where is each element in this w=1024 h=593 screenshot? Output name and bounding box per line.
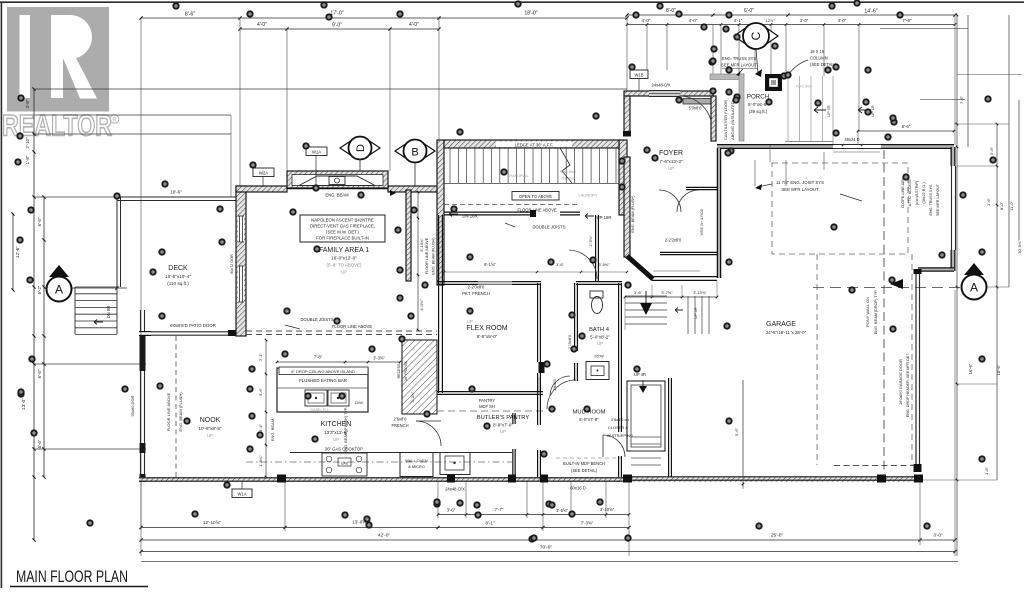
svg-text:8'-0": 8'-0" (666, 8, 676, 14)
svg-text:SEE MFR LAYOUT: SEE MFR LAYOUT (781, 187, 819, 192)
svg-text:DN 5R: DN 5R (106, 306, 111, 319)
dimension chain left outer (21, 87, 36, 541)
eng beam foyer west (631, 195, 635, 233)
stair ledge (444, 140, 619, 148)
dim hall rot (589, 235, 593, 246)
svg-text:5'0x8'0: 5'0x8'0 (689, 106, 702, 111)
svg-text:1'-8⅝": 1'-8⅝" (258, 455, 263, 467)
svg-text:DIRECT-VENT GAS FIREPLACE,: DIRECT-VENT GAS FIREPLACE, (310, 224, 375, 229)
svg-text:5'-10⅝": 5'-10⅝" (419, 238, 424, 252)
svg-text:8'-1": 8'-1" (485, 521, 495, 526)
svg-text:17'-0": 17'-0" (330, 11, 343, 17)
pony wall dashed (883, 150, 885, 476)
floor line above family (246, 317, 437, 335)
svg-text:6'-6": 6'-6" (37, 439, 42, 448)
window tag W1A bottom (232, 482, 252, 498)
svg-text:(36x22 R.O.): (36x22 R.O.) (922, 182, 926, 203)
title main floor plan (10, 568, 148, 587)
bath4 door (547, 380, 576, 409)
svg-text:16'-0"x12'-0": 16'-0"x12'-0" (331, 256, 357, 261)
extension lines top (141, 15, 955, 530)
dimension row bottom 4 (139, 545, 956, 554)
svg-text:7'-7": 7'-7" (495, 507, 504, 512)
dimension row top-right inner (626, 18, 957, 26)
svg-text:10'-6"x8'-8": 10'-6"x8'-8" (198, 426, 222, 431)
svg-text:4'-0": 4'-0" (689, 18, 698, 23)
butlers pantry label (477, 415, 530, 434)
porch label (747, 94, 769, 115)
svg-text:ENG. TRUSS SYS: ENG. TRUSS SYS (722, 56, 757, 61)
svg-text:PKT. FRENCH: PKT. FRENCH (462, 291, 489, 296)
svg-text:7'-3⅝": 7'-3⅝" (581, 521, 594, 526)
column label (786, 49, 837, 78)
svg-text:NAPOLEON ASCENT B42NTRE: NAPOLEON ASCENT B42NTRE (311, 218, 374, 223)
svg-text:UP: UP (207, 433, 213, 438)
svg-text:FLOOR LINE ABOVE: FLOOR LINE ABOVE (332, 324, 372, 329)
svg-text:3'-10⅝": 3'-10⅝" (600, 507, 615, 512)
wall garage west (717, 148, 720, 278)
dimension row top-right (625, 8, 956, 17)
svg-text:FOR FIREPLACE BUILT-IN: FOR FIREPLACE BUILT-IN (316, 236, 369, 241)
svg-text:(5'-8" TO ABOVE): (5'-8" TO ABOVE) (327, 263, 362, 268)
svg-text:NOOK: NOOK (200, 417, 221, 424)
svg-text:6'-0"x7'-8": 6'-0"x7'-8" (579, 417, 599, 422)
foyer closet (659, 187, 720, 254)
svg-text:W.STRIPPING: W.STRIPPING (607, 433, 633, 438)
svg-text:4'-0⅝": 4'-0⅝" (419, 299, 424, 311)
svg-text:7'-6": 7'-6" (902, 18, 912, 24)
svg-text:FLOOR LINE ABOVE: FLOOR LINE ABOVE (166, 392, 171, 431)
wall oven (400, 453, 433, 477)
svg-text:6'-1⅝": 6'-1⅝" (484, 262, 496, 267)
extension lines left (34, 89, 627, 449)
section marker A left (47, 265, 72, 302)
baseline bottom (141, 561, 958, 563)
svg-text:60x16 D: 60x16 D (570, 486, 586, 491)
mud room label (573, 410, 606, 423)
svg-text:1'-8": 1'-8" (25, 155, 30, 164)
wall stairwell west upper (619, 283, 622, 477)
kitchen island (277, 367, 368, 412)
svg-text:DN 16R: DN 16R (462, 214, 477, 219)
svg-text:RAILING: RAILING (796, 84, 812, 89)
section line A-A (72, 286, 961, 289)
svg-text:2'-9⅝": 2'-9⅝" (589, 235, 593, 246)
svg-text:48x24 D: 48x24 D (844, 137, 859, 142)
fireplace (287, 171, 388, 189)
svg-text:6'-6": 6'-6" (37, 369, 42, 378)
svg-text:SEE MFR LAYOUT: SEE MFR LAYOUT (936, 183, 940, 216)
svg-text:D/W: D/W (355, 400, 363, 405)
svg-text:4'-0": 4'-0" (642, 18, 651, 23)
porch steps labels (814, 105, 875, 117)
svg-text:ENG. DROP HEADER, SEE MFR DET.: ENG. DROP HEADER, SEE MFR DET. (906, 353, 910, 418)
bath4 vanity (586, 354, 609, 380)
deck outline (117, 115, 236, 287)
svg-text:BATH 4: BATH 4 (589, 327, 610, 333)
svg-text:(110 sq.ft.): (110 sq.ft.) (167, 281, 189, 286)
svg-text:6'-0": 6'-0" (744, 8, 754, 14)
svg-text:3'-0": 3'-0" (800, 18, 809, 23)
wall kitchen-butlers (513, 413, 515, 477)
svg-text:UP: UP (467, 319, 473, 324)
svg-text:ENG. TRUSS SYS: ENG. TRUSS SYS (929, 184, 933, 215)
svg-text:W2A: W2A (259, 171, 268, 176)
garage door header dashed (817, 254, 914, 466)
mud room door (603, 417, 633, 457)
svg-text:(c/w W-STRIP): (c/w W-STRIP) (915, 181, 919, 206)
svg-text:C: C (749, 31, 763, 40)
svg-text:70'-0": 70'-0" (540, 545, 553, 551)
svg-text:12'-6": 12'-6" (15, 246, 20, 258)
svg-text:FLOOR LINE ABOVE: FLOOR LINE ABOVE (425, 237, 429, 274)
cantilever label (723, 99, 735, 140)
dim garage interior (734, 380, 744, 487)
svg-text:8'-0": 8'-0" (999, 201, 1004, 210)
window tag W1A top (306, 147, 327, 185)
dimension chain left inner (37, 195, 46, 478)
svg-text:RAILING: RAILING (560, 169, 576, 174)
pocket door label flex (462, 285, 489, 297)
svg-text:W1A: W1A (237, 492, 246, 497)
svg-text:UP: UP (500, 429, 506, 434)
pantry cabinet kitchen (397, 340, 437, 414)
svg-text:10'-6"x10'-4": 10'-6"x10'-4" (165, 274, 191, 279)
svg-text:OPEN TO ABOVE: OPEN TO ABOVE (519, 194, 553, 199)
svg-text:MAIN FLOOR PLAN: MAIN FLOOR PLAN (16, 568, 128, 586)
svg-text:3'-0": 3'-0" (933, 533, 943, 538)
flex room label (466, 319, 507, 339)
svg-text:8'-6": 8'-6" (902, 124, 911, 129)
svg-text:WALL OVEN: WALL OVEN (405, 458, 428, 463)
svg-text:'ATTIC' ACCESS: 'ATTIC' ACCESS (908, 179, 912, 207)
svg-text:ENG. BEAM (DROP) TYP.: ENG. BEAM (DROP) TYP. (874, 290, 878, 335)
svg-text:ENG. BEAM (FLUSH): ENG. BEAM (FLUSH) (178, 392, 183, 432)
svg-text:2'-10": 2'-10" (25, 137, 30, 149)
wall garage jog (918, 268, 954, 271)
callout marker D (340, 137, 380, 187)
misc line foyer (653, 270, 700, 272)
dimension chains right (880, 14, 1022, 556)
svg-text:ENG. BEAM: ENG. BEAM (325, 193, 349, 198)
svg-text:CANTILEVER FLOOR: CANTILEVER FLOOR (723, 100, 728, 140)
svg-text:8'-8"x7'-0": 8'-8"x7'-0" (493, 423, 513, 428)
wall garage east upper (951, 147, 955, 271)
dimension row top-left inner (238, 22, 440, 31)
svg-text:W1B: W1B (634, 73, 643, 78)
wall foyer diagonal (627, 256, 717, 280)
svg-text:7'-6": 7'-6" (959, 95, 964, 104)
svg-text:UP: UP (597, 341, 603, 346)
garage extension stubs (755, 152, 824, 186)
wall flex north (437, 282, 541, 285)
svg-text:7'-8": 7'-8" (314, 355, 323, 360)
bath4 label (589, 327, 610, 346)
deck label (165, 265, 191, 286)
svg-text:ENG. BEAM (FLUSH): ENG. BEAM (FLUSH) (432, 237, 436, 275)
wall stairs west (437, 140, 444, 285)
wall family west (230, 186, 246, 336)
svg-text:24x48 O/X: 24x48 O/X (445, 487, 465, 492)
wall bath west (568, 283, 577, 381)
svg-text:FOYER: FOYER (659, 150, 683, 157)
svg-text:11 7/8" ENG. JOIST SYS: 11 7/8" ENG. JOIST SYS (776, 180, 824, 185)
svg-text:10'-6": 10'-6" (170, 190, 182, 195)
wall garage east lower (914, 269, 922, 472)
svg-text:6'-6": 6'-6" (37, 217, 42, 226)
svg-text:3'-9⅝": 3'-9⅝" (598, 262, 610, 267)
kitchen label (321, 421, 352, 442)
svg-text:(SEE DETAIL): (SEE DETAIL) (571, 468, 598, 473)
svg-text:4'-0": 4'-0" (257, 22, 267, 28)
wall stairwell east (669, 378, 672, 477)
wall foyer north (624, 91, 713, 97)
svg-text:4'-0": 4'-0" (409, 22, 419, 28)
svg-text:PORCH: PORCH (747, 94, 769, 101)
wall foyer east (711, 96, 716, 141)
svg-text:LAUNDRY: LAUNDRY (578, 193, 597, 198)
svg-text:8'-9"x9'-0": 8'-9"x9'-0" (477, 334, 498, 339)
svg-text:& MICRO: & MICRO (408, 464, 425, 469)
svg-text:36" GAS COOKTOP: 36" GAS COOKTOP (325, 447, 363, 452)
attic access labels (901, 177, 940, 216)
dimension row bottom 2 (139, 520, 630, 530)
wall bath north (576, 282, 622, 285)
svg-text:36" FRIDGE: 36" FRIDGE (404, 360, 408, 380)
svg-text:RECESS: RECESS (397, 363, 401, 378)
window tag W1B (630, 70, 671, 91)
svg-text:3'-6": 3'-6" (447, 508, 456, 513)
svg-text:11'-0": 11'-0" (1009, 200, 1014, 210)
joist label garage (755, 180, 862, 201)
svg-text:8'-6": 8'-6" (185, 12, 195, 18)
svg-text:3'-5⅝": 3'-5⅝" (556, 508, 568, 513)
butlers shelf (437, 398, 545, 411)
svg-text:42'-0": 42'-0" (378, 533, 391, 539)
svg-text:8'-0"x6'-6": 8'-0"x6'-6" (748, 102, 768, 107)
foyer entry door (679, 96, 712, 129)
window tag 60x16 (570, 486, 586, 491)
svg-text:A: A (55, 283, 63, 297)
dimension row bottom 1 (437, 507, 631, 516)
patio door (139, 310, 236, 336)
extension lines bottom (141, 290, 955, 556)
svg-text:6" DROP CEILING ABOVE ISLAND: 6" DROP CEILING ABOVE ISLAND (291, 369, 355, 374)
eng truss label (721, 56, 757, 76)
watermark REALTOR logo (2, 7, 119, 143)
svg-text:3'-7⅝": 3'-7⅝" (661, 290, 673, 295)
mudroom bench (556, 458, 622, 473)
svg-text:25'-0": 25'-0" (771, 533, 784, 539)
svg-text:2-2'2x8'0: 2-2'2x8'0 (665, 238, 682, 243)
wall nook west (130, 336, 146, 482)
svg-text:6'0x6'8'D PATIO DOOR: 6'0x6'8'D PATIO DOOR (170, 323, 216, 328)
svg-text:16'-6": 16'-6" (968, 363, 973, 374)
wall family north left (236, 186, 287, 192)
svg-text:COLUMN: COLUMN (810, 56, 828, 61)
svg-text:4'-1": 4'-1" (734, 18, 743, 23)
svg-text:1'-6": 1'-6" (984, 466, 989, 475)
svg-text:WRE SH & ROD: WRE SH & ROD (700, 208, 704, 235)
nook label (198, 417, 222, 438)
svg-text:DECK: DECK (168, 265, 188, 272)
dim garage top (857, 124, 956, 145)
svg-text:3'-6": 3'-6" (258, 387, 263, 396)
svg-text:2-2'0x8'0: 2-2'0x8'0 (468, 285, 485, 290)
dim kitchen island (276, 355, 402, 364)
svg-text:ENG. BEAM: ENG. BEAM (270, 419, 275, 441)
svg-text:90x72 DOR: 90x72 DOR (230, 254, 234, 274)
svg-text:5'-6": 5'-6" (734, 427, 739, 436)
svg-text:DOUBLE JOISTS: DOUBLE JOISTS (300, 317, 333, 322)
svg-text:HANDRAIL: HANDRAIL (509, 174, 528, 178)
porch column (765, 74, 782, 91)
porch wall grey (710, 74, 744, 141)
svg-text:UP: UP (668, 166, 674, 171)
foyer label (659, 150, 683, 171)
toilet bath4 (590, 291, 603, 314)
wall family north right (388, 186, 440, 192)
svg-text:GARB. R.L.: GARB. R.L. (310, 408, 330, 412)
svg-text:6'-2": 6'-2" (37, 285, 42, 294)
basement stairwell (625, 296, 667, 465)
svg-text:ABOVE (INSULATED): ABOVE (INSULATED) (730, 99, 735, 139)
svg-text:(SEE M.W. DET.): (SEE M.W. DET.) (326, 230, 360, 235)
window tag W2A (253, 168, 274, 187)
door butlers east (550, 376, 570, 396)
svg-text:DOUBLE JOISTS: DOUBLE JOISTS (532, 225, 565, 230)
family area label (319, 247, 369, 275)
floor line above nook (166, 336, 183, 477)
wall garage north (717, 145, 954, 149)
svg-text:(39 sq.ft.): (39 sq.ft.) (749, 109, 768, 114)
svg-text:9'-0": 9'-0" (332, 23, 342, 29)
garage entry steps (675, 296, 709, 334)
dimension row bottom 3 (139, 533, 956, 542)
hall closet (443, 215, 628, 281)
svg-text:18'-6": 18'-6" (996, 364, 1001, 375)
svg-text:3'-8": 3'-8" (25, 99, 30, 108)
svg-text:3'-3⅝": 3'-3⅝" (373, 356, 385, 361)
garage label (766, 321, 807, 335)
eng beam kitchen (344, 407, 348, 453)
svg-text:ENG. BEAM (FLUSH): ENG. BEAM (FLUSH) (631, 195, 635, 233)
svg-text:W1A: W1A (312, 150, 321, 155)
svg-text:UP 4R: UP 4R (634, 372, 646, 377)
callout marker C (734, 23, 778, 77)
svg-text:UP 4R: UP 4R (826, 105, 831, 117)
misc porch lines (770, 145, 880, 162)
svg-text:FRENCH: FRENCH (391, 423, 408, 428)
svg-text:UP: UP (341, 270, 347, 275)
svg-text:GARAGE: GARAGE (766, 321, 796, 328)
garage door label (898, 353, 910, 418)
svg-text:FAMILY AREA 1: FAMILY AREA 1 (319, 247, 369, 254)
svg-text:MDF SH: MDF SH (479, 404, 495, 409)
svg-text:4'-0": 4'-0" (838, 18, 847, 23)
french door butlers (391, 417, 441, 447)
wall foyer west (623, 96, 631, 257)
up4r label stairwell (634, 372, 647, 393)
svg-text:13'-0": 13'-0" (21, 398, 26, 410)
wall south (139, 475, 923, 483)
svg-text:FLEX ROOM: FLEX ROOM (466, 325, 507, 332)
deck stairs (75, 287, 117, 335)
svg-text:2'-1": 2'-1" (258, 352, 263, 361)
dimension chain left far (11, 212, 20, 291)
svg-text:UP 4R: UP 4R (693, 307, 698, 319)
stair landing labels (444, 192, 611, 230)
kitchen sink counter (440, 453, 470, 475)
svg-text:5'-3⅝": 5'-3⅝" (411, 391, 415, 402)
svg-text:12⅞": 12⅞" (765, 18, 775, 23)
svg-text:CLOPE-LINE-ABV: CLOPE-LINE-ABV (901, 177, 905, 208)
svg-text:A: A (970, 281, 978, 295)
svg-text:PONY WALL ON: PONY WALL ON (865, 297, 870, 327)
wall stair hall south (444, 210, 580, 217)
garage attic dashed rect (772, 163, 908, 254)
stair treads (444, 148, 619, 184)
callout marker B (395, 140, 435, 187)
svg-text:30'-9⅝": 30'-9⅝" (1017, 240, 1022, 254)
svg-text:5'-0"x8'-2": 5'-0"x8'-2" (590, 335, 610, 340)
dim chain mud garage (624, 280, 719, 330)
svg-text:2'6x8'0: 2'6x8'0 (394, 417, 407, 422)
svg-text:90x60 DOR: 90x60 DOR (130, 395, 135, 416)
svg-text:24x48-0/X: 24x48-0/X (651, 83, 670, 88)
svg-text:B: B (411, 147, 418, 159)
svg-text:3'-10⅝": 3'-10⅝" (693, 290, 707, 295)
porch step edge label (842, 137, 863, 146)
wall flex west (439, 215, 443, 393)
svg-text:7'-6"x13'-3": 7'-6"x13'-3" (659, 159, 683, 164)
svg-text:PANTRY: PANTRY (479, 398, 495, 403)
section marker A right (890, 263, 987, 300)
wall stairs east (619, 140, 627, 215)
wall flex east (538, 283, 541, 393)
svg-text:3'-6": 3'-6" (556, 262, 565, 267)
svg-text:26"W: 26"W (594, 354, 604, 359)
eng beam label family (325, 190, 396, 198)
window tag 24x48 (445, 487, 465, 492)
svg-text:GAS: GAS (341, 462, 349, 466)
svg-text:1'-6": 1'-6" (986, 197, 991, 206)
svg-text:ON 2x4: ON 2x4 (561, 176, 575, 181)
svg-text:3'-6": 3'-6" (989, 146, 994, 155)
svg-text:R: R (112, 118, 117, 124)
svg-text:BUILT-IN MDF BENCH: BUILT-IN MDF BENCH (563, 461, 605, 466)
kitchen cooktop (246, 447, 512, 477)
svg-text:3'-6": 3'-6" (634, 290, 643, 295)
svg-text:18'-0": 18'-0" (524, 11, 537, 17)
wall butlers east (538, 377, 541, 477)
svg-text:LEDGE AT 36" A.F.F.: LEDGE AT 36" A.F.F. (515, 143, 554, 148)
porch railing (785, 76, 833, 146)
svg-text:BUTLER'S PANTRY: BUTLER'S PANTRY (477, 415, 530, 421)
svg-text:UP: UP (333, 437, 339, 442)
svg-text:FLUSHED EATING BAR: FLUSHED EATING BAR (299, 378, 347, 383)
wall family east (406, 190, 411, 281)
dimension chain nook interior (258, 339, 275, 479)
stair direction arrow (640, 291, 652, 315)
fireplace note box (300, 215, 385, 242)
svg-text:3'-4": 3'-4" (258, 423, 263, 432)
svg-text:16'0x8'0 GARAGE DOOR: 16'0x8'0 GARAGE DOOR (898, 359, 903, 405)
stair railing labels (509, 169, 576, 181)
svg-text:12'-10⅝": 12'-10⅝" (203, 520, 221, 525)
dimension row top-left (139, 11, 628, 20)
svg-text:SEE MFR LAYOUT: SEE MFR LAYOUT (721, 63, 757, 68)
